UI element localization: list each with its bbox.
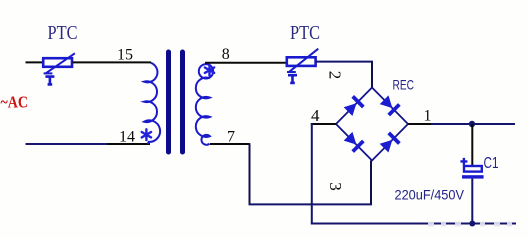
svg-text:8: 8 (222, 46, 230, 63)
node: DC+ junction dot (469, 121, 475, 127)
wire: pin 1 to right edge (431, 123, 515, 125)
thermistor PTC2 (287, 49, 319, 83)
diode D1 (top-left edge, pointing to top vertex) (343, 95, 365, 117)
wire: AC line bottom lead (black part) to pin 14 (107, 143, 150, 145)
transformer T1 secondary winding (196, 64, 213, 145)
capacitor C1 (460, 158, 483, 179)
svg-text:14: 14 (119, 129, 135, 146)
wire: transformer pin 8 to PTC2 (205, 62, 287, 64)
wire: C1 to bottom rail (471, 179, 473, 224)
svg-text:PTC: PTC (290, 23, 320, 44)
wire: AC line bottom lead (blue part) (26, 143, 109, 145)
svg-text:15: 15 (117, 47, 133, 64)
wire: vertical from bridge pin 3 (370, 161, 372, 205)
wire: transformer pin 7 lead (210, 143, 250, 145)
transformer core bar 2 (180, 50, 185, 155)
wire: pin 4 down to bottom rail (311, 123, 313, 223)
wire: AC line top lead (26, 61, 43, 63)
wire: PTC2 to bridge pin 2 corner (316, 61, 373, 63)
thermistor PTC1 (43, 53, 75, 84)
polarity dot (asterisk) primary, pin 14 (142, 129, 151, 140)
bridge rectifier REC : diamond outline (336, 88, 408, 161)
transformer T1 primary winding (144, 63, 160, 144)
svg-text:C1: C1 (484, 155, 499, 172)
wire: bottom rail (311, 223, 516, 225)
diode D4 (bottom-right edge, pointing to right vertex) (379, 132, 401, 154)
node: junction dot on bottom rail (469, 221, 475, 227)
diode D2 (top-right edge, pointing to right vertex) (379, 94, 401, 116)
svg-text:3: 3 (326, 182, 345, 191)
svg-text:7: 7 (227, 129, 235, 146)
polarity dot (asterisk) secondary, pin 8 (205, 65, 214, 76)
wire: junction down to C1 (471, 124, 473, 166)
svg-text:PTC: PTC (48, 23, 78, 44)
wire: PTC1 to transformer pin 15 (73, 61, 152, 63)
svg-text:220uF/450V: 220uF/450V (395, 188, 465, 203)
svg-text:1: 1 (424, 108, 432, 125)
diode D3 (bottom-left edge, pointing to bottom vertex) (343, 131, 365, 153)
wire: vertical into bridge pin 2 (371, 62, 373, 88)
watermark (faint dashes over bottom rail) (428, 222, 512, 227)
wire: bridge pin 4 stub (311, 123, 337, 125)
transformer core bar 1 (166, 50, 171, 155)
svg-text:REC: REC (393, 77, 415, 93)
wire: pin 7 down and across to bridge pin 3 (249, 143, 251, 204)
svg-text:2: 2 (326, 71, 345, 80)
wire: bottom horizontal to bridge pin 3 (249, 203, 373, 205)
svg-text:4: 4 (311, 106, 320, 125)
svg-text:~AC: ~AC (1, 93, 29, 112)
wire: bridge pin 1 stub (black) (408, 123, 432, 125)
